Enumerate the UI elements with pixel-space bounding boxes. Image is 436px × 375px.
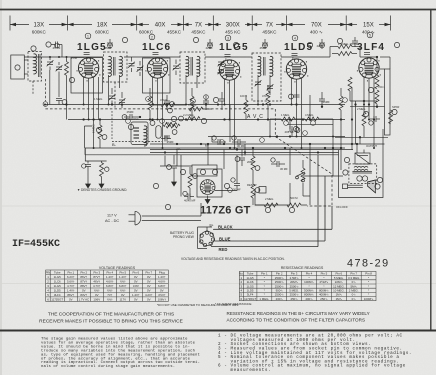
IF can drops xyxy=(108,75,110,105)
svg-text:455KC: 455KC xyxy=(191,30,206,35)
electrolytic C8 xyxy=(165,136,167,142)
svg-text:1 MEG: 1 MEG xyxy=(281,113,289,117)
resistor R13 v xyxy=(251,156,255,170)
svg-text:Pin 4: Pin 4 xyxy=(107,270,114,274)
svg-text:87V†: 87V† xyxy=(80,279,87,283)
svg-text:0V: 0V xyxy=(82,288,86,292)
T3 primary winding xyxy=(258,56,261,76)
top B+ bus y57 xyxy=(24,56,41,58)
svg-text:300X: 300X xyxy=(226,23,240,29)
cap C6c xyxy=(319,99,325,101)
svg-text:0V: 0V xyxy=(147,275,151,279)
junction dots on buses xyxy=(44,104,375,150)
svg-text:6.8V†: 6.8V† xyxy=(158,284,166,288)
svg-text:1.5 MEG.: 1.5 MEG. xyxy=(338,42,349,46)
circled numbers above tube labels xyxy=(85,32,373,41)
detector diode arrows left of V3 xyxy=(218,60,225,66)
svg-text:13X: 13X xyxy=(33,23,44,29)
svg-text:4: 4 xyxy=(294,36,296,40)
svg-text:5 MEG: 5 MEG xyxy=(188,103,196,107)
bus y=119.5 xyxy=(68,119,345,121)
gang linkage dashed bus xyxy=(45,109,332,206)
arrow lines (broken at label) xyxy=(10,24,29,26)
svg-text:.05 MF: .05 MF xyxy=(349,42,358,46)
dashed link xyxy=(111,111,113,139)
V5 cathode resistor R17c xyxy=(348,77,352,91)
svg-text:100 K: 100 K xyxy=(240,94,247,98)
T2 primary winding xyxy=(186,56,189,76)
speaker dashed enclosure xyxy=(349,164,377,184)
T4 winding row 1 xyxy=(354,166,368,167)
svg-text:455KC: 455KC xyxy=(262,30,277,35)
wires to output transformer xyxy=(356,144,358,153)
svg-text:OSC: OSC xyxy=(133,117,139,121)
B- labels xyxy=(112,142,210,148)
svg-text:230∿: 230∿ xyxy=(276,297,284,301)
tube V2 1LC6 socket xyxy=(147,58,167,78)
svg-text:250∿: 250∿ xyxy=(290,297,298,301)
svg-text:OUTPUT: OUTPUT xyxy=(366,144,377,148)
left sub box outline xyxy=(84,126,92,148)
svg-text:0∿: 0∿ xyxy=(352,297,357,301)
svg-text:600KC: 600KC xyxy=(32,30,47,35)
svg-text:4.2V†: 4.2V† xyxy=(145,293,153,297)
cap C12 xyxy=(219,99,225,101)
rectifier wiring loop B xyxy=(197,169,222,197)
circled ref L2 xyxy=(150,121,155,126)
V5 grid resistor R17b xyxy=(338,52,352,56)
tube V1 1LG5 socket xyxy=(78,58,98,78)
ground under C11 xyxy=(86,180,91,188)
svg-text:3LF4: 3LF4 xyxy=(357,42,385,53)
junction dots xyxy=(65,56,378,154)
svg-text:1M∿: 1M∿ xyxy=(336,297,343,301)
electrolytic C16b 30MF xyxy=(234,184,240,186)
tube pin numerals xyxy=(77,56,381,83)
svg-text:500 M: 500 M xyxy=(290,196,298,200)
svg-text:Pin 3: Pin 3 xyxy=(94,270,101,274)
svg-text:6.8V†: 6.8V† xyxy=(106,284,114,288)
electrolytic C14b 30MF xyxy=(218,139,220,145)
svg-text:0V: 0V xyxy=(134,297,138,301)
tuning cap C3 drop xyxy=(49,70,51,105)
junction node G xyxy=(43,102,48,107)
svg-text:478-29: 478-29 xyxy=(347,258,390,270)
osc coil box L2 xyxy=(131,122,148,145)
resistor R5 h 2.2MEG xyxy=(186,117,200,121)
svg-text:½V†: ½V† xyxy=(120,279,126,283)
frame right line xyxy=(430,10,432,331)
bottom right note xyxy=(227,311,370,323)
svg-text:1.4V†: 1.4V† xyxy=(67,288,75,292)
tube V4 1LD5 socket xyxy=(286,59,306,79)
svg-text:2: 2 xyxy=(151,35,153,39)
svg-text:455KC: 455KC xyxy=(167,30,182,35)
svg-text:86V†: 86V† xyxy=(80,275,87,279)
svg-text:470 K: 470 K xyxy=(262,94,269,98)
T1 primary winding xyxy=(109,56,112,76)
resistor R19 v (stacked) xyxy=(375,75,379,89)
svg-text:Pin 5: Pin 5 xyxy=(120,270,127,274)
svg-text:46V†: 46V† xyxy=(93,279,100,283)
padder capacitor C4a xyxy=(128,62,135,68)
svg-text:0V: 0V xyxy=(147,288,151,292)
svg-text:1LD5: 1LD5 xyxy=(54,288,61,292)
tube V2 box xyxy=(143,58,171,93)
resistor R7 xyxy=(244,100,248,114)
T2 secondary winding xyxy=(197,56,200,76)
svg-text:.005 MF: .005 MF xyxy=(284,130,294,134)
switch label xyxy=(336,205,348,209)
svg-text:1 MEG.: 1 MEG. xyxy=(259,297,269,301)
cap C6b xyxy=(203,101,209,103)
IF transformer T3 dashed can xyxy=(252,53,281,101)
svg-text:117V: 117V xyxy=(120,297,127,301)
svg-text:88V†: 88V† xyxy=(80,284,87,288)
electrolytic C15 30MF xyxy=(277,161,279,167)
svg-text:70X: 70X xyxy=(311,23,322,29)
svg-text:117Z6GT: 117Z6GT xyxy=(51,297,63,301)
resistor R14 v xyxy=(251,184,255,198)
T3 secondary winding xyxy=(270,56,273,76)
svg-text:* FILAMENT RESISTANCE: * FILAMENT RESISTANCE xyxy=(215,302,252,306)
svg-text:▼ DENOTES CHASSIS GROUND.: ▼ DENOTES CHASSIS GROUND. xyxy=(77,188,127,192)
svg-text:2.2 MEG: 2.2 MEG xyxy=(183,113,194,117)
loop antenna L1 dashed can xyxy=(28,52,42,82)
svg-text:455 KC: 455 KC xyxy=(225,30,241,35)
faint fold line y=206 xyxy=(0,205,436,207)
electrolytic C20 xyxy=(374,116,376,122)
tube V1 1LG5 shield box xyxy=(71,58,103,94)
svg-text:½V†: ½V† xyxy=(107,288,113,292)
svg-text:1.4V†: 1.4V† xyxy=(106,275,114,279)
svg-text:B+: B+ xyxy=(210,224,214,228)
T3 core xyxy=(263,57,265,76)
resistor R6 to gnd xyxy=(101,161,103,163)
ground under V6 xyxy=(205,196,210,204)
svg-text:ACCORDING TO THE CONDITION: ACCORDING TO THE CONDITION OF THE FILTER… xyxy=(227,318,366,323)
svg-text:0V: 0V xyxy=(121,293,125,297)
rectifier wiring loop A xyxy=(192,165,217,176)
svg-text:40X: 40X xyxy=(155,23,166,29)
loop antenna winding xyxy=(34,54,37,74)
battery plug view xyxy=(198,227,215,249)
resistor R12 xyxy=(287,203,301,207)
cap C6a xyxy=(164,101,170,103)
tube type labels xyxy=(77,42,385,53)
frame bottom line xyxy=(0,330,436,332)
svg-text:40/40 MF: 40/40 MF xyxy=(184,199,196,203)
T1 core xyxy=(113,57,115,76)
svg-text:4½V†: 4½V† xyxy=(158,293,166,297)
diode load resistors R9 R10 xyxy=(281,117,295,121)
grid cap stubs above tubes xyxy=(84,53,370,57)
resistor R20 v on candohm xyxy=(389,110,393,124)
trimmer capacitor C2 xyxy=(56,65,63,71)
bottom small print right xyxy=(218,334,412,373)
volume pot R11 xyxy=(264,203,278,207)
bypass cap C21 to gnd xyxy=(173,155,175,165)
svg-text:1LC6: 1LC6 xyxy=(54,279,61,283)
power buses xyxy=(150,149,353,151)
wire ant to loop xyxy=(24,59,28,61)
svg-text:½V†: ½V† xyxy=(94,288,100,292)
faint fold line y=283.5 xyxy=(0,283,239,285)
svg-text:1: 1 xyxy=(87,34,89,38)
svg-text:5: 5 xyxy=(369,33,371,37)
svg-text:1LG5: 1LG5 xyxy=(54,275,61,279)
coupling cap C7 on bus xyxy=(130,114,132,120)
svg-text:0V: 0V xyxy=(95,293,99,297)
svg-text:PIN: PIN xyxy=(46,270,51,274)
svg-text:4 MEG: 4 MEG xyxy=(305,113,313,117)
svg-text:B-: B- xyxy=(205,143,210,148)
svg-text:7V†: 7V† xyxy=(107,293,113,297)
T2 core xyxy=(190,57,192,76)
svg-text:RED: RED xyxy=(219,247,228,252)
svg-text:30 MF: 30 MF xyxy=(237,144,245,148)
vertical drops mid right xyxy=(269,119,271,137)
svg-text:Pin 2: Pin 2 xyxy=(81,270,88,274)
svg-text:100M∿: 100M∿ xyxy=(364,297,374,301)
resistor R16 v xyxy=(188,174,192,188)
svg-text:400 ∿: 400 ∿ xyxy=(310,30,323,35)
circled ref inside antenna block xyxy=(15,65,20,70)
svg-text:4.7V†: 4.7V† xyxy=(93,284,101,288)
stage-gain dimension row xyxy=(10,16,391,31)
svg-text:.05MF: .05MF xyxy=(126,110,134,114)
117V AC-DC label xyxy=(105,214,119,223)
svg-text:87V†: 87V† xyxy=(93,275,100,279)
svg-text:B-: B- xyxy=(112,142,117,147)
svg-text:.25MF: .25MF xyxy=(166,140,174,144)
AVC resistors between V3/V4 xyxy=(245,95,247,100)
ticks xyxy=(9,16,11,31)
svg-text:PRONG VIEW: PRONG VIEW xyxy=(173,235,194,239)
frame top line xyxy=(0,9,436,11)
wire gang dashed from tuning cap xyxy=(44,79,46,101)
svg-text:1.7V AC: 1.7V AC xyxy=(78,297,89,301)
circled ref xyxy=(213,97,218,102)
svg-text:6.2V†: 6.2V† xyxy=(67,275,75,279)
svg-text:½V†: ½V† xyxy=(120,288,126,292)
bus y=136.5 xyxy=(208,136,345,138)
svg-text:4.6V†: 4.6V† xyxy=(158,279,166,283)
V5 grid resistor R17a xyxy=(338,45,352,49)
T3 trimmers xyxy=(255,80,262,86)
svg-text:117 V: 117 V xyxy=(107,214,117,218)
trimmer capacitor C5 xyxy=(109,94,116,100)
svg-text:1.4V†: 1.4V† xyxy=(158,275,166,279)
caps inside L2 xyxy=(134,128,140,138)
tube V6 117Z6GT socket xyxy=(200,180,215,195)
cap C13 xyxy=(290,126,292,132)
padder capacitor C4b xyxy=(137,66,144,72)
svg-text:117Z6GT: 117Z6GT xyxy=(244,297,256,301)
svg-text:RESIST: RESIST xyxy=(247,183,257,187)
svg-text:1LG5: 1LG5 xyxy=(77,42,107,53)
jack bar xyxy=(343,184,348,189)
circled ref speaker xyxy=(343,170,348,175)
electrolytic C11 to gnd xyxy=(87,161,89,164)
svg-text:117Z6 GT: 117Z6 GT xyxy=(200,205,251,217)
trimmer capacitor C1 xyxy=(47,60,54,66)
ON-OFF switch S1 xyxy=(296,176,299,179)
svg-text:470 K: 470 K xyxy=(160,98,167,102)
svg-text:7X: 7X xyxy=(195,23,202,29)
svg-text:7X: 7X xyxy=(266,23,273,29)
svg-text:Tube: Tube xyxy=(54,270,61,274)
candohm resistor block xyxy=(385,69,391,135)
wires rect section xyxy=(207,144,209,165)
svg-text:2 MEG: 2 MEG xyxy=(357,107,365,111)
svg-text:1LG5: 1LG5 xyxy=(54,284,61,288)
tube V5 3LF4 socket xyxy=(359,58,379,78)
svg-text:RESISTANCE READINGS: RESISTANCE READINGS xyxy=(281,266,324,270)
node dots left xyxy=(49,56,68,58)
resistor R8 xyxy=(266,91,270,105)
output transformer T4 primary box xyxy=(355,153,370,164)
bus segments right xyxy=(350,100,377,102)
misc circled component refs xyxy=(31,37,400,212)
svg-text:0V: 0V xyxy=(147,279,151,283)
wire loop to grid xyxy=(42,56,79,58)
extra circled refs xyxy=(55,43,348,192)
svg-text:Pin 7: Pin 7 xyxy=(146,270,153,274)
svg-text:15X: 15X xyxy=(363,23,374,29)
grid caps row above tubes xyxy=(51,37,358,57)
ground under R6 xyxy=(99,180,104,188)
tube V3 1LG5 socket xyxy=(219,60,239,80)
svg-text:0V: 0V xyxy=(69,297,73,301)
svg-text:250∿: 250∿ xyxy=(320,297,328,301)
svg-text:½V†: ½V† xyxy=(107,297,113,301)
bottom small print left xyxy=(41,337,200,370)
svg-text:RESISTANCE READINGS IN THE: RESISTANCE READINGS IN THE B+ CIRCUITS M… xyxy=(227,311,370,316)
electrolytic C14 30MF xyxy=(229,137,231,143)
resistor R2a under V2 xyxy=(148,96,152,110)
svg-text:0V: 0V xyxy=(147,297,151,301)
svg-text:Pin 6: Pin 6 xyxy=(133,270,140,274)
main bus y=104.5 xyxy=(45,104,345,106)
power cord lines xyxy=(142,215,201,217)
resistor R3 h 470K xyxy=(161,103,175,107)
svg-text:0V: 0V xyxy=(134,288,138,292)
svg-text:1.4V†: 1.4V† xyxy=(119,275,127,279)
svg-text:400∿: 400∿ xyxy=(305,297,313,301)
svg-text:83V†: 83V† xyxy=(80,293,87,297)
svg-text:IF=455KC: IF=455KC xyxy=(12,239,60,250)
svg-text:.02MF: .02MF xyxy=(205,46,213,50)
sub-chassis stub line xyxy=(85,148,106,161)
svg-text:SPKR: SPKR xyxy=(392,105,399,109)
wires around switch xyxy=(255,148,290,205)
T4 core bars xyxy=(352,171,372,173)
T1 secondary winding xyxy=(120,56,123,76)
svg-text:2 MEG: 2 MEG xyxy=(265,197,273,201)
dashed gang drop x115 xyxy=(114,82,116,109)
svg-text:RECEIVER MAKES IT POSSIBLE: RECEIVER MAKES IT POSSIBLE TO BRING YOU … xyxy=(39,319,183,325)
svg-text:700∿: 700∿ xyxy=(378,85,385,89)
left lower vertical xyxy=(84,148,86,155)
svg-text:106V: 106V xyxy=(93,297,100,301)
svg-text:1.4V†: 1.4V† xyxy=(132,293,140,297)
T4 winding row 2 xyxy=(354,169,368,170)
resistor R2c near V4/V5 xyxy=(339,96,343,110)
svg-text:5.6V†: 5.6V† xyxy=(67,279,75,283)
svg-text:6.8V†: 6.8V† xyxy=(119,284,127,288)
svg-text:0V: 0V xyxy=(134,279,138,283)
padder capacitor C4c xyxy=(173,64,180,70)
resistor R5meg v xyxy=(98,125,102,139)
svg-text:86V†: 86V† xyxy=(67,293,74,297)
circled refs right xyxy=(368,87,373,92)
cap C17 xyxy=(164,136,170,138)
IF transformer T1 dashed can xyxy=(104,52,128,82)
svg-text:20MF: 20MF xyxy=(247,160,254,164)
rectifier section: filter resistor R15 xyxy=(163,123,177,127)
AVC label xyxy=(247,114,266,120)
resistor R1 xyxy=(65,62,69,76)
svg-text:4.7V†: 4.7V† xyxy=(67,284,75,288)
svg-text:22∿: 22∿ xyxy=(176,147,182,151)
B- bus y=148 xyxy=(85,147,345,149)
trimmer capacitor C6 xyxy=(119,98,126,104)
svg-text:0V: 0V xyxy=(160,288,164,292)
resistor R2b under T2 xyxy=(190,96,194,110)
svg-text:3: 3 xyxy=(227,36,229,40)
value labels xyxy=(52,42,399,203)
filter caps C18/C19 40-40MF xyxy=(188,194,190,200)
svg-text:Plug: Plug xyxy=(159,270,165,274)
svg-text:600KC: 600KC xyxy=(139,30,154,35)
svg-text:1LC6: 1LC6 xyxy=(142,42,171,53)
svg-text:0V: 0V xyxy=(147,284,151,288)
right side B+ network: vertical wires xyxy=(351,88,353,150)
svg-text:106V†: 106V† xyxy=(158,297,167,301)
svg-text:BLUE: BLUE xyxy=(219,236,231,241)
svg-text:ON-OFF: ON-OFF xyxy=(336,205,348,209)
svg-text:measurements.: measurements. xyxy=(218,368,271,373)
circled ref cone xyxy=(375,184,380,189)
cap C16 xyxy=(241,150,243,157)
svg-text:3LF4: 3LF4 xyxy=(54,293,61,297)
resistor R18 v xyxy=(362,112,366,126)
svg-text:30 MF: 30 MF xyxy=(280,167,288,171)
speaker voice coil xyxy=(357,176,362,181)
AC plug P1 xyxy=(135,211,141,225)
svg-text:nals of volume control during: nals of volume control during stage gain… xyxy=(41,364,175,369)
denotes chassis ground note xyxy=(77,188,127,192)
svg-text:18X: 18X xyxy=(97,23,108,29)
speaker unit frame xyxy=(339,129,384,198)
svg-text:AVC: AVC xyxy=(247,114,266,120)
speaker cone SP1 xyxy=(367,180,375,193)
svg-text:VOLTAGE READINGS: VOLTAGE READINGS xyxy=(99,266,136,270)
svg-text:BLACK: BLACK xyxy=(218,224,233,229)
choke pill xyxy=(156,126,161,139)
svg-text:AC - DC: AC - DC xyxy=(105,219,119,223)
svg-text:0V: 0V xyxy=(134,275,138,279)
svg-text:2.2M: 2.2M xyxy=(71,56,78,60)
svg-text:30 MF: 30 MF xyxy=(233,188,241,192)
antenna block A1 xyxy=(11,55,24,79)
L2 winding xyxy=(144,126,147,146)
svg-text:VOLTAGE AND RESISTANCE READ: VOLTAGE AND RESISTANCE READINGS TAKEN IN… xyxy=(181,257,285,261)
filament drops under tubes xyxy=(84,77,374,148)
svg-text:.01MF: .01MF xyxy=(322,100,330,104)
svg-text:1 MEG: 1 MEG xyxy=(94,97,102,101)
